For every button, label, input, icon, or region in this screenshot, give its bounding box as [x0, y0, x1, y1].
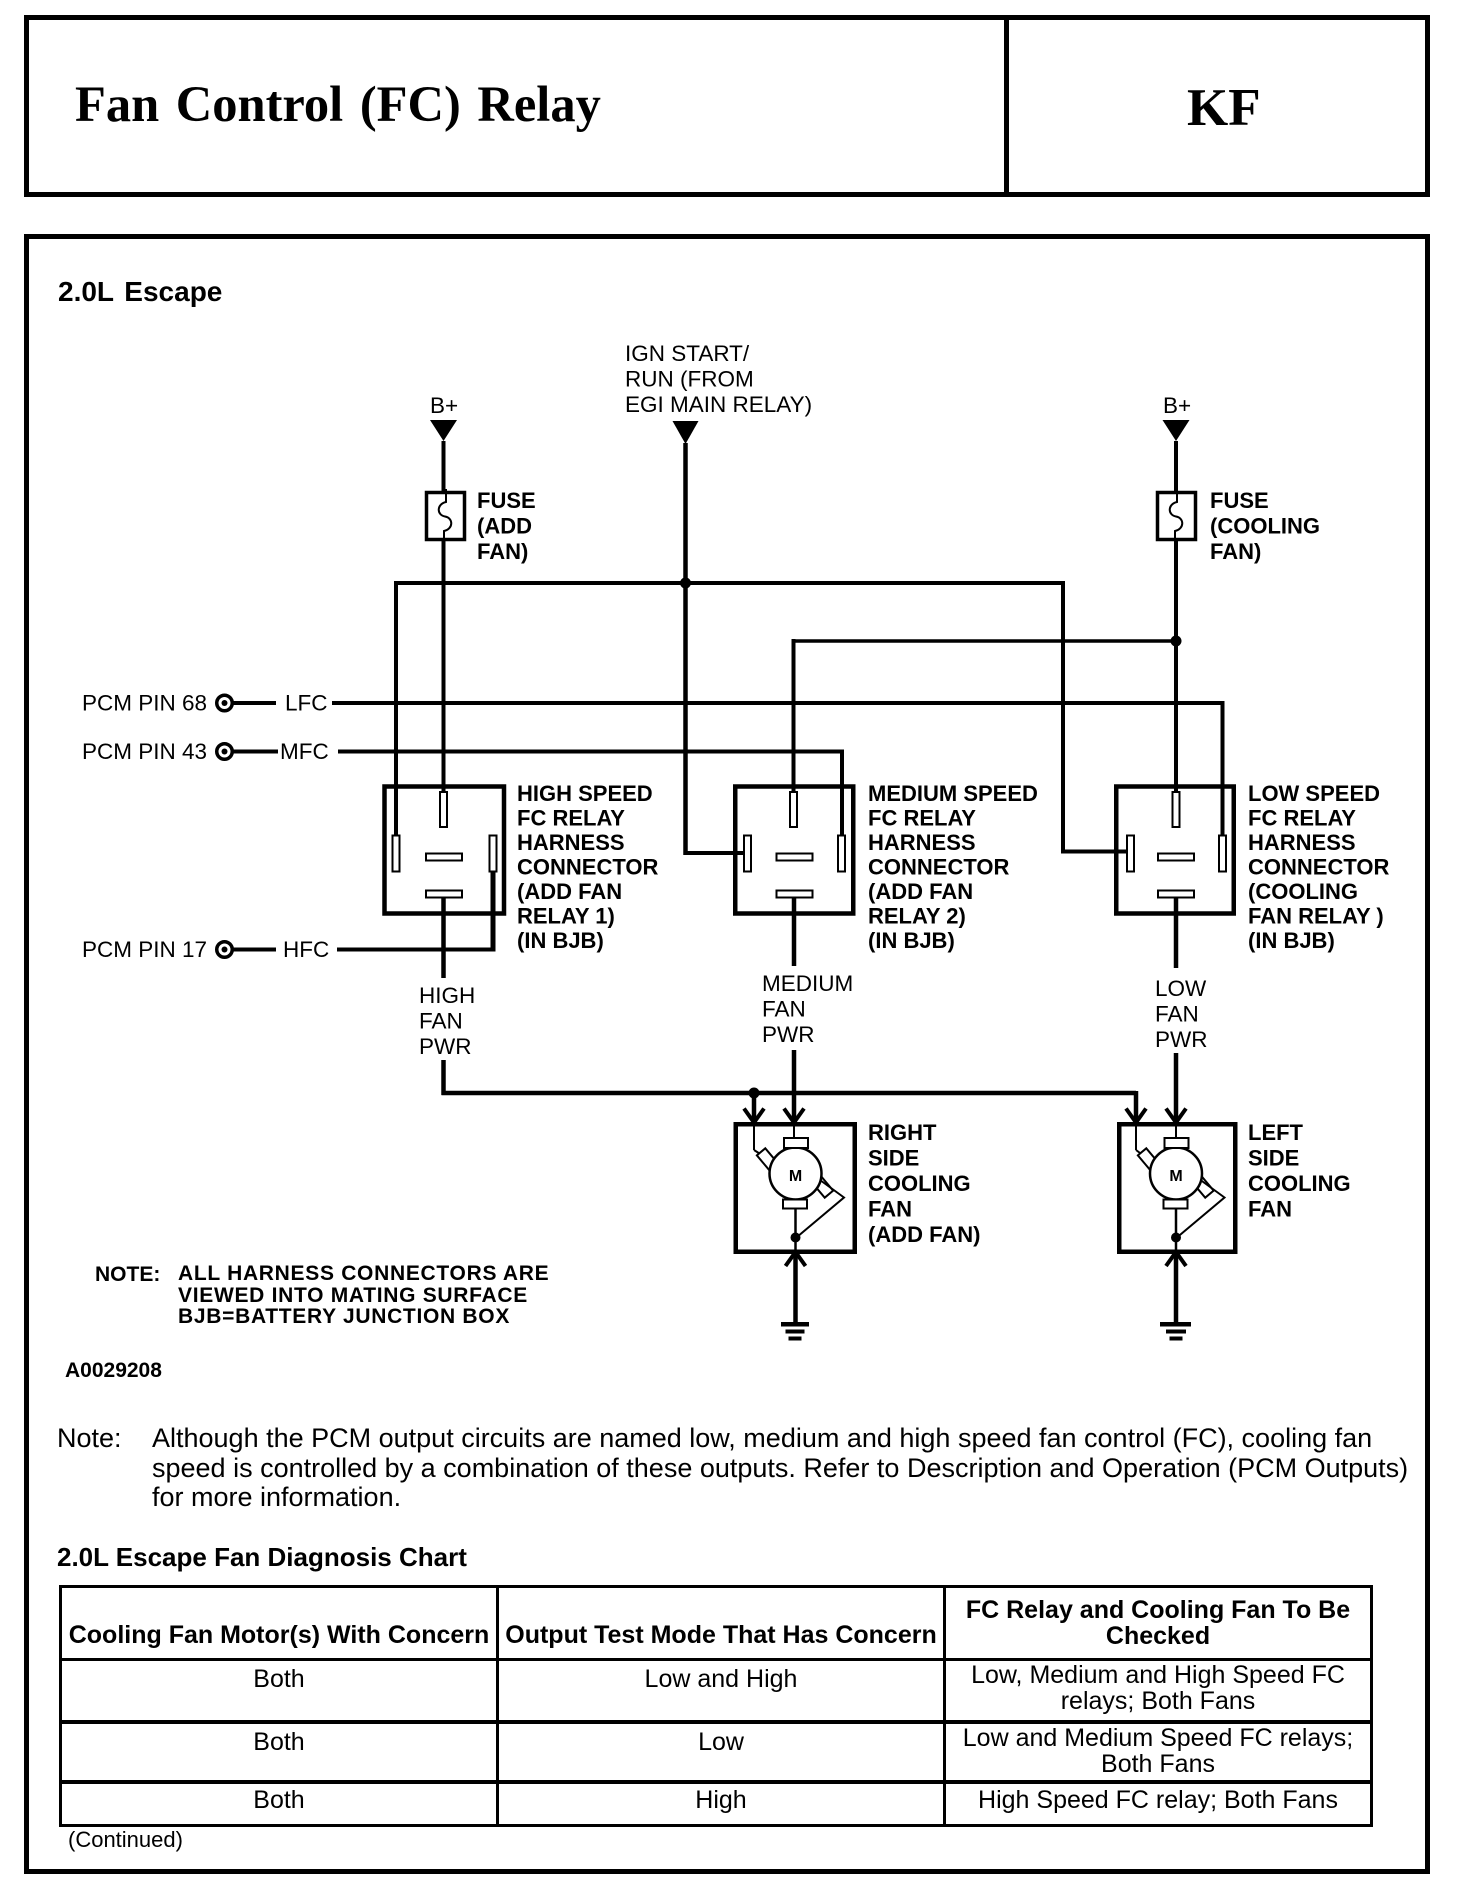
svg-text:EGI MAIN RELAY): EGI MAIN RELAY) — [625, 392, 812, 417]
svg-text:SIDE: SIDE — [868, 1146, 919, 1171]
wire drop to medium relay pin 85 — [792, 639, 796, 794]
svg-text:(COOLING: (COOLING — [1210, 514, 1320, 539]
svg-text:IGN START/: IGN START/ — [625, 341, 750, 366]
svg-text:LEFT: LEFT — [1248, 1120, 1304, 1145]
svg-text:PCM PIN 68: PCM PIN 68 — [82, 691, 207, 716]
svg-text:PCM PIN 17: PCM PIN 17 — [82, 937, 207, 962]
wire B+ to fuse F1 — [442, 441, 446, 492]
svg-text:HARNESS: HARNESS — [868, 830, 976, 855]
label medium speed relay — [868, 781, 1038, 953]
svg-text:PWR: PWR — [419, 1034, 472, 1059]
wire medium fan pwr upper — [792, 916, 797, 966]
motor M1 right side cooling fan — [736, 1124, 855, 1252]
page title — [75, 75, 601, 133]
svg-text:(ADD FAN: (ADD FAN — [517, 879, 622, 904]
svg-text:FUSE: FUSE — [1210, 488, 1269, 513]
svg-text:COOLING: COOLING — [1248, 1171, 1351, 1196]
wire IGN vertical — [683, 443, 688, 855]
wire bus right drop — [1061, 581, 1065, 854]
svg-text:RELAY 1): RELAY 1) — [517, 904, 615, 929]
svg-text:FAN: FAN — [1155, 1002, 1199, 1027]
svg-text:FUSE: FUSE — [477, 488, 536, 513]
node junction IGN/bus — [680, 578, 691, 589]
title bar divider — [1004, 20, 1009, 192]
ground left fan — [1160, 1322, 1191, 1341]
svg-text:FC RELAY: FC RELAY — [517, 806, 625, 831]
svg-text:MFC: MFC — [280, 739, 329, 764]
svg-text:FC RELAY: FC RELAY — [868, 806, 976, 831]
wire to low relay pin 86 — [1061, 850, 1130, 854]
svg-text:HARNESS: HARNESS — [1248, 830, 1356, 855]
svg-text:RELAY 2): RELAY 2) — [868, 904, 966, 929]
net label MEDIUM FAN PWR — [762, 971, 853, 1047]
wire high fan pwr lower — [441, 1060, 446, 1095]
wire bus drop to right fan with arrow — [744, 1093, 764, 1123]
wire MFC to medium relay pin 87 — [338, 750, 842, 836]
wire IGN to medium relay pin 86 — [684, 851, 748, 855]
svg-text:SIDE: SIDE — [1248, 1146, 1299, 1171]
svg-text:FAN: FAN — [419, 1009, 463, 1034]
wire low fan pwr lower with arrow — [1166, 1053, 1186, 1123]
svg-text:COOLING: COOLING — [868, 1171, 971, 1196]
chart heading — [57, 1542, 467, 1573]
svg-text:B+: B+ — [430, 393, 458, 418]
wire LFC to low relay pin 87 — [332, 701, 1223, 836]
wire bus drop to left fan with arrow — [1126, 1091, 1146, 1123]
pin PCM PIN 68 — [82, 691, 232, 716]
wire medium fan pwr lower with arrow — [784, 1050, 804, 1123]
svg-text:HFC: HFC — [283, 937, 329, 962]
figure number A0029208 — [65, 1359, 162, 1383]
wire fuse F1 to high relay pin 30 — [442, 539, 446, 794]
svg-text:(ADD FAN: (ADD FAN — [868, 879, 973, 904]
node IGN START/RUN label — [625, 341, 812, 417]
continued marker — [68, 1827, 183, 1853]
svg-text:CONNECTOR: CONNECTOR — [868, 855, 1009, 880]
svg-text:CONNECTOR: CONNECTOR — [1248, 855, 1389, 880]
power symbol IGN arrow — [673, 421, 699, 444]
power symbol B+ (left) — [430, 393, 458, 441]
pin PCM PIN 43 — [82, 739, 232, 764]
connector low speed FC relay K3 — [1116, 787, 1234, 917]
svg-text:(ADD FAN): (ADD FAN) — [868, 1222, 980, 1247]
wire pin 68 to LFC — [233, 701, 276, 705]
title bar box — [24, 15, 1430, 197]
svg-text:(ADD: (ADD — [477, 514, 532, 539]
svg-text:HIGH: HIGH — [419, 983, 475, 1008]
fuse F1 (ADD FAN) — [427, 489, 465, 543]
svg-text:HARNESS: HARNESS — [517, 830, 625, 855]
svg-text:FAN: FAN — [762, 997, 806, 1022]
svg-text:LOW SPEED: LOW SPEED — [1248, 781, 1380, 806]
pin PCM PIN 17 — [82, 937, 232, 962]
fuse F2 (COOLING FAN) — [1158, 489, 1196, 543]
note paragraph — [57, 1424, 1408, 1513]
svg-text:PWR: PWR — [762, 1022, 815, 1047]
wire bus left drop to high relay pin 86 — [394, 581, 398, 836]
wire high fan pwr upper — [441, 916, 446, 978]
wire right fan to ground with arrow — [786, 1252, 806, 1324]
diagnosis chart table — [59, 1585, 1373, 1827]
wire fan power bus — [442, 1091, 1137, 1096]
svg-text:MEDIUM: MEDIUM — [762, 971, 853, 996]
svg-text:RIGHT: RIGHT — [868, 1120, 937, 1145]
svg-text:CONNECTOR: CONNECTOR — [517, 855, 658, 880]
svg-text:LFC: LFC — [285, 691, 328, 716]
svg-text:FAN: FAN — [1248, 1197, 1292, 1222]
svg-text:FAN): FAN) — [477, 539, 528, 564]
node junction fan bus — [749, 1088, 760, 1099]
wire pin 17 to HFC — [233, 948, 276, 952]
wire bus B+ feed horizontal — [396, 581, 1063, 585]
wire low fan pwr upper — [1174, 916, 1179, 968]
net label LOW FAN PWR — [1155, 976, 1208, 1052]
svg-text:HIGH SPEED: HIGH SPEED — [517, 781, 653, 806]
label low speed relay — [1248, 781, 1389, 953]
label fuse F1 — [477, 488, 536, 564]
node junction fuse F2 line — [1171, 636, 1182, 647]
ground right fan — [781, 1322, 809, 1341]
note: harness connectors — [95, 1263, 160, 1287]
label left side cooling fan — [1248, 1120, 1351, 1222]
section code KF — [1187, 78, 1261, 138]
wire pin 43 to MFC — [233, 750, 278, 754]
svg-text:(IN BJB): (IN BJB) — [1248, 928, 1335, 953]
svg-text:(IN BJB): (IN BJB) — [517, 928, 604, 953]
svg-text:M: M — [789, 1168, 802, 1185]
motor M2 left side cooling fan — [1119, 1124, 1235, 1252]
svg-text:B+: B+ — [1163, 393, 1191, 418]
svg-text:FAN): FAN) — [1210, 539, 1261, 564]
label fuse F2 — [1210, 488, 1320, 564]
wire HFC to high relay pin 87 — [337, 871, 493, 952]
wire fuse F2 to low relay pin 30 — [1174, 539, 1178, 794]
heading 2.0L Escape — [58, 276, 222, 308]
svg-text:PCM PIN 43: PCM PIN 43 — [82, 739, 207, 764]
net label HIGH FAN PWR — [419, 983, 475, 1059]
svg-text:FAN RELAY ): FAN RELAY ) — [1248, 904, 1384, 929]
connector high speed FC relay K1 — [385, 787, 505, 917]
power symbol B+ (right) — [1163, 393, 1192, 441]
label right side cooling fan — [868, 1120, 980, 1247]
svg-text:(COOLING: (COOLING — [1248, 879, 1358, 904]
svg-text:PWR: PWR — [1155, 1027, 1208, 1052]
svg-text:RUN (FROM: RUN (FROM — [625, 367, 754, 392]
wire left fan to ground with arrow — [1166, 1252, 1186, 1324]
connector medium speed FC relay K2 — [735, 787, 853, 917]
svg-text:FAN: FAN — [868, 1197, 912, 1222]
label high speed relay — [517, 781, 658, 953]
svg-text:MEDIUM SPEED: MEDIUM SPEED — [868, 781, 1038, 806]
svg-text:M: M — [1169, 1168, 1182, 1185]
svg-text:(IN BJB): (IN BJB) — [868, 928, 955, 953]
svg-text:FC RELAY: FC RELAY — [1248, 806, 1356, 831]
wire coil feed horizontal — [794, 639, 1177, 643]
wire B+ to fuse F2 — [1174, 441, 1178, 492]
svg-text:LOW: LOW — [1155, 976, 1207, 1001]
